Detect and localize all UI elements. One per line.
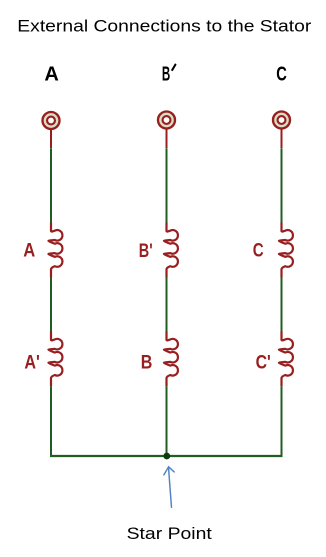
wire: red stem below terminal C (281, 128, 283, 148)
svg-text:B: B (141, 351, 153, 373)
wire: phase B upper green segment (166, 148, 168, 223)
wire: red stem below terminal B' (166, 128, 168, 148)
wire: phase A middle green segment (50, 277, 52, 332)
svg-text:External Connections to the St: External Connections to the Stator (17, 18, 312, 36)
svg-text:C: C (253, 240, 264, 262)
winding C' (lower coil, phase C) (279, 331, 293, 386)
svg-text:B': B' (139, 240, 153, 262)
winding B' (upper coil, phase B) (164, 223, 178, 278)
winding A' (lower coil, phase A) (49, 331, 63, 386)
winding C (upper coil, phase C) (279, 223, 293, 278)
wire: phase A lower green segment (50, 386, 52, 456)
terminal A (43, 112, 60, 129)
svg-text:A: A (23, 240, 35, 262)
wire: phase A upper green segment (50, 148, 52, 223)
terminal B' (158, 112, 175, 129)
wire: phase B lower green segment (166, 386, 168, 456)
svg-text:C': C' (256, 352, 271, 374)
wire: phase C upper green segment (281, 148, 283, 223)
terminal label B' prime mark (172, 65, 175, 70)
svg-text:A': A' (24, 352, 40, 374)
wire: red stem below terminal A (50, 129, 52, 148)
svg-text:B: B (162, 64, 170, 86)
svg-text:Star Point: Star Point (127, 524, 213, 543)
wire: bottom rail (star connection) (50, 455, 283, 457)
wire: phase C lower green segment (281, 386, 283, 456)
svg-text:A: A (44, 64, 58, 86)
arrow to star point (164, 467, 174, 508)
star point junction dot (163, 453, 170, 460)
wire: phase C middle green segment (281, 277, 283, 332)
wire: phase B middle green segment (166, 277, 168, 332)
winding B (lower coil, phase B) (164, 331, 178, 386)
terminal C (273, 112, 290, 129)
winding A (upper coil, phase A) (49, 223, 63, 278)
svg-text:C: C (276, 63, 287, 85)
